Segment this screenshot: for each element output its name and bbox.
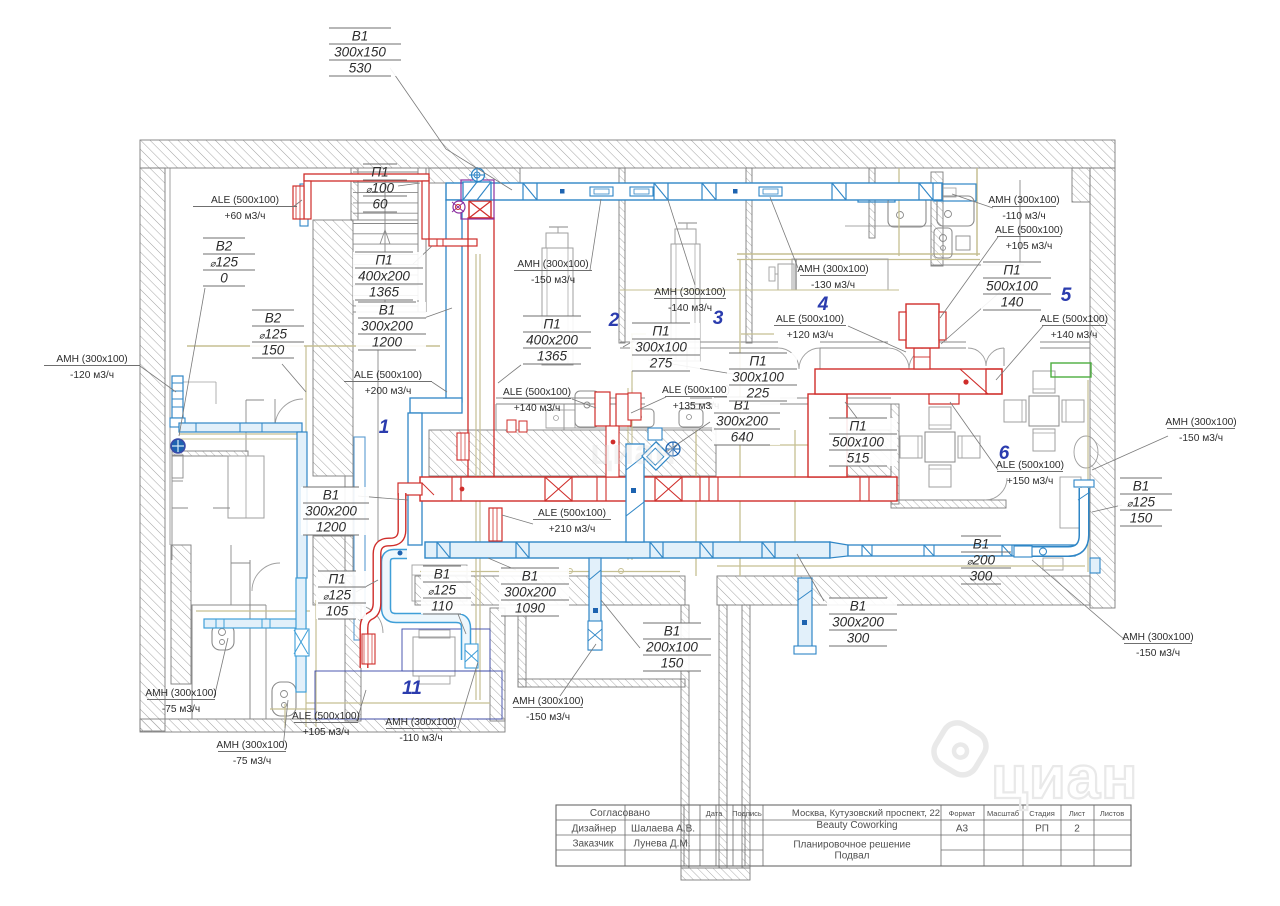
wall inner face left <box>169 168 171 545</box>
svg-text:+150 м3/ч: +150 м3/ч <box>1007 476 1054 487</box>
duct left wall vertical <box>354 437 365 640</box>
cabinet right wall <box>1060 477 1081 528</box>
label B1 300x200 1090 <box>499 568 569 616</box>
wall outer left band <box>140 168 165 731</box>
wall partition room 4 right <box>869 168 875 238</box>
svg-text:В1: В1 <box>352 29 369 44</box>
leader ALE+210 <box>502 515 533 524</box>
fan unit room4 <box>792 259 888 290</box>
svg-text:АМН (300х100): АМН (300х100) <box>385 717 456 728</box>
diffuser diamond <box>642 442 670 470</box>
wall mid hatched band left <box>429 430 716 476</box>
tan pipe corridor horizontal <box>743 444 835 446</box>
svg-text:150: 150 <box>1130 511 1153 526</box>
svg-text:-140 м3/ч: -140 м3/ч <box>668 303 712 314</box>
label P1 500x100 515 <box>827 418 897 466</box>
svg-text:275: 275 <box>649 356 673 371</box>
wall hall left line <box>495 404 497 430</box>
svg-text:3: 3 <box>713 308 724 329</box>
svg-text:циан: циан <box>590 431 676 472</box>
svg-text:-110 м3/ч: -110 м3/ч <box>399 733 442 744</box>
grille on top duct <box>590 187 613 196</box>
duct B2 left horizontal <box>179 423 302 432</box>
navy equipment outline room11 upper <box>402 629 490 671</box>
duct P1 connector horizontal <box>429 239 477 246</box>
svg-text:300х150: 300х150 <box>334 45 386 60</box>
svg-text:6: 6 <box>999 443 1010 464</box>
svg-text:Планировочное решение: Планировочное решение <box>793 840 911 851</box>
wall room6 bottom <box>891 500 1006 508</box>
svg-text:515: 515 <box>847 451 870 466</box>
svg-text:ALE (500х100): ALE (500х100) <box>1040 314 1108 325</box>
svg-text:1200: 1200 <box>316 520 347 535</box>
label B1 300x200 1200 <box>356 302 426 350</box>
svg-text:В2: В2 <box>216 239 233 254</box>
wall room1 boundary <box>377 345 379 560</box>
label B1 125 150 right <box>1118 478 1172 526</box>
table group 1 room6 <box>925 432 955 462</box>
duct B1 main top horizontal <box>446 183 942 200</box>
svg-text:П1: П1 <box>849 419 866 434</box>
svg-text:640: 640 <box>731 430 754 445</box>
staircase <box>353 171 418 173</box>
svg-text:-75 м3/ч: -75 м3/ч <box>162 704 200 715</box>
svg-text:П1: П1 <box>1003 263 1020 278</box>
beauty sink counter <box>546 427 716 429</box>
label B1 300x200 300 <box>827 598 897 646</box>
wall corridor line upper <box>620 341 645 343</box>
wall main bottom band right <box>717 576 1090 605</box>
purple damper outline <box>461 180 494 219</box>
svg-text:300х200: 300х200 <box>361 319 413 334</box>
svg-text:1200: 1200 <box>372 335 403 350</box>
svg-text:300х200: 300х200 <box>832 615 884 630</box>
svg-text:АМН (300х100): АМН (300х100) <box>797 264 868 275</box>
label P1 300x100 225 <box>727 353 797 401</box>
label P1 500x100 140 <box>981 262 1051 310</box>
label B1 200 300 on duct <box>961 535 1001 537</box>
label P1 400x200 1365 <box>353 252 423 300</box>
svg-text:4: 4 <box>817 294 829 315</box>
label B1 300x150 530 top <box>327 28 401 76</box>
equipment room11 upper <box>412 565 467 601</box>
svg-text:П1: П1 <box>543 317 560 332</box>
door arcs corridor <box>645 348 666 369</box>
tan band under left duct <box>179 433 306 435</box>
duct B1 right outdoor drop <box>798 578 812 652</box>
wall partition rooms 3-4 <box>746 168 752 343</box>
sink basin 1 <box>888 196 926 227</box>
duct P1 top-left vertical <box>422 181 429 239</box>
svg-text:0: 0 <box>220 271 228 286</box>
svg-text:105: 105 <box>326 604 349 619</box>
svg-text:РП: РП <box>1035 824 1049 835</box>
svg-text:300х200: 300х200 <box>305 504 357 519</box>
wall stairwell corridor right <box>742 605 750 868</box>
blue circle-cross symbol <box>666 442 680 456</box>
svg-text:ALE (500х100): ALE (500х100) <box>211 195 279 206</box>
toilet 2 bottom-left <box>272 682 296 716</box>
svg-text:-120 м3/ч: -120 м3/ч <box>70 370 114 381</box>
svg-text:Формат: Формат <box>949 809 976 818</box>
svg-text:В1: В1 <box>1133 479 1150 494</box>
svg-text:-150 м3/ч: -150 м3/ч <box>531 275 575 286</box>
table group 2 room6 <box>1029 396 1059 426</box>
wall room6 left <box>891 404 899 504</box>
duct P1 main horizontal 500 <box>420 477 897 501</box>
wall partition rooms 2-3 <box>619 168 625 343</box>
duct AMN left riser <box>172 376 183 418</box>
red risers at beauty sinks <box>595 392 610 426</box>
duct B1 transition <box>830 542 848 558</box>
door arc left room <box>275 399 303 427</box>
cabinets left-middle <box>228 456 264 518</box>
svg-text:А3: А3 <box>956 824 969 835</box>
svg-text:225: 225 <box>746 386 770 401</box>
svg-text:ALE (500х100): ALE (500х100) <box>662 385 730 396</box>
svg-text:Шалаева А.В.: Шалаева А.В. <box>631 824 695 835</box>
fan unit P1 <box>906 304 939 348</box>
wall stair enclosure <box>417 168 419 312</box>
wall central pier lower <box>313 536 353 605</box>
svg-text:Согласовано: Согласовано <box>590 808 651 819</box>
duct B2 left down vertical <box>297 432 307 578</box>
svg-text:Заказчик: Заказчик <box>572 839 614 850</box>
tan pipe room5 <box>898 168 900 256</box>
svg-text:500х100: 500х100 <box>832 435 884 450</box>
svg-text:5: 5 <box>1061 285 1072 306</box>
svg-text:400х200: 400х200 <box>526 333 578 348</box>
wall corner top-right block <box>1072 168 1090 202</box>
svg-text:П1: П1 <box>371 165 388 180</box>
svg-text:Москва, Кутузовский проспект: Москва, Кутузовский проспект, 22 <box>792 808 940 819</box>
navy equipment outline room11 lower <box>315 671 502 719</box>
wall room5 divider <box>976 168 978 256</box>
svg-text:ALE (500х100): ALE (500х100) <box>354 370 422 381</box>
svg-text:400х200: 400х200 <box>358 269 410 284</box>
sink basin 2 <box>937 196 974 226</box>
svg-text:циан: циан <box>991 744 1138 811</box>
tan line above bottom band <box>420 571 680 573</box>
equipment room11 <box>413 637 455 676</box>
svg-text:АМН (300х100): АМН (300х100) <box>145 688 216 699</box>
tan pipe at blue branch <box>627 388 629 560</box>
svg-text:+140 м3/ч: +140 м3/ч <box>514 403 561 414</box>
duct P1 S-run down to room11 <box>364 493 402 668</box>
svg-text:ALE (500х100): ALE (500х100) <box>538 508 606 519</box>
svg-text:140: 140 <box>1001 295 1024 310</box>
small red risers hall top <box>507 420 516 432</box>
door arc hall bottom <box>355 605 383 633</box>
wall stairwell corridor left <box>681 605 689 868</box>
wall top-right sink counter line <box>845 225 932 227</box>
wall wc cubicle lines bottom-left <box>191 605 193 719</box>
label P1 125 105 <box>316 571 366 619</box>
grille on central duct left <box>457 433 469 460</box>
purple circle symbol <box>453 201 465 213</box>
tan pipe vertical center <box>475 254 477 700</box>
wall main bottom band center <box>415 576 685 605</box>
title block frame <box>556 805 1131 866</box>
duct B1 drop 200x100 <box>589 558 601 650</box>
svg-text:300х100: 300х100 <box>732 370 784 385</box>
duct wc horizontal bottom-left <box>204 619 303 628</box>
tan pipe right wall <box>1087 380 1089 572</box>
svg-text:-75 м3/ч: -75 м3/ч <box>233 756 271 767</box>
tan pipe corridor verticals <box>739 259 741 576</box>
svg-text:В1: В1 <box>323 488 340 503</box>
duct neck to fan <box>914 348 930 369</box>
wall left room stub <box>183 381 216 383</box>
wall outer top band <box>140 140 1115 168</box>
svg-text:1090: 1090 <box>515 601 546 616</box>
svg-text:ALE (500х100): ALE (500х100) <box>503 387 571 398</box>
wall bottom-left step column <box>345 605 361 721</box>
label B1 200x100 150 <box>641 623 711 671</box>
duct P1 central vertical 400x200 <box>468 218 494 477</box>
svg-text:ALE (500х100): ALE (500х100) <box>776 314 844 325</box>
wall stairwell corridor mid <box>719 605 727 868</box>
svg-text:300х200: 300х200 <box>504 585 556 600</box>
fan circle symbol top <box>472 169 485 182</box>
svg-text:Лунева Д.М.: Лунева Д.М. <box>634 839 691 850</box>
svg-text:60: 60 <box>372 197 388 212</box>
wall stairwell corridor cap <box>681 868 750 880</box>
wall stair room left <box>518 608 526 687</box>
grille P1 room11 <box>362 634 375 664</box>
svg-text:2: 2 <box>608 310 620 331</box>
outlet through wall right <box>1090 558 1100 573</box>
svg-text:1: 1 <box>379 417 390 438</box>
svg-text:2: 2 <box>1074 824 1080 835</box>
fire damper red X-box <box>469 201 491 218</box>
svg-text:ALE (500х100): ALE (500х100) <box>292 711 360 722</box>
svg-text:-150 м3/ч: -150 м3/ч <box>526 712 570 723</box>
label B1 125 110 <box>421 566 471 614</box>
column riser room2 <box>542 248 573 365</box>
toilet 1 bottom-left <box>212 624 234 650</box>
leader lines <box>390 68 512 190</box>
duct P1 top-left horizontal <box>304 174 429 181</box>
grille on top duct <box>630 187 653 196</box>
svg-text:В1: В1 <box>973 537 990 552</box>
svg-text:АМН (300х100): АМН (300х100) <box>56 354 127 365</box>
svg-text:В1: В1 <box>522 569 539 584</box>
svg-text:300х200: 300х200 <box>716 414 768 429</box>
svg-text:11: 11 <box>402 678 422 699</box>
label B2 125 150 <box>250 310 304 358</box>
small box below duct right <box>1043 558 1063 570</box>
wall outer right band <box>1090 168 1115 608</box>
svg-text:АМН (300х100): АМН (300х100) <box>1122 632 1193 643</box>
label P1 100 60 <box>363 163 397 165</box>
wall hall upper line <box>496 397 645 399</box>
svg-text:АМН (300х100): АМН (300х100) <box>216 740 287 751</box>
wall wc top-right lines <box>737 253 980 255</box>
svg-text:530: 530 <box>349 61 372 76</box>
toilet top-right <box>934 228 952 258</box>
door arc room6 <box>985 478 1007 500</box>
svg-text:АМН (300х100): АМН (300х100) <box>512 696 583 707</box>
svg-text:В2: В2 <box>265 311 282 326</box>
svg-text:АМН (300х100): АМН (300х100) <box>517 259 588 270</box>
svg-text:-110 м3/ч: -110 м3/ч <box>1002 211 1045 222</box>
wall partition room1 top <box>351 168 358 220</box>
label B2 125 0 <box>201 238 255 286</box>
svg-text:АМН (300х100): АМН (300х100) <box>1165 417 1236 428</box>
svg-text:150: 150 <box>262 343 285 358</box>
svg-text:+200 м3/ч: +200 м3/ч <box>365 386 412 397</box>
svg-text:П1: П1 <box>375 253 392 268</box>
svg-text:П1: П1 <box>652 324 669 339</box>
duct cyan S to room11 <box>386 554 466 660</box>
svg-text:300: 300 <box>847 631 870 646</box>
blue damper box <box>463 182 491 200</box>
wc small box right <box>956 236 970 250</box>
grille on top duct <box>759 187 782 196</box>
duct wc vertical bottom-left <box>296 578 306 692</box>
svg-text:-150 м3/ч: -150 м3/ч <box>1179 433 1223 444</box>
duct P1 right vertical riser <box>808 394 847 477</box>
duct B1 right elbow up riser <box>1032 488 1084 552</box>
grille box on thin duct <box>1014 546 1032 557</box>
svg-text:-130 м3/ч: -130 м3/ч <box>811 280 855 291</box>
grille ALE below main duct <box>489 508 502 541</box>
wall left inner band <box>171 545 191 684</box>
svg-text:-150 м3/ч: -150 м3/ч <box>1136 648 1180 659</box>
duct B1 vertical to main <box>408 413 422 545</box>
duct B2 short stub top <box>300 184 308 226</box>
svg-text:1365: 1365 <box>369 285 400 300</box>
wall bottom-left right column <box>490 608 505 721</box>
duct P1 grille left <box>304 181 311 219</box>
wall partition wc left <box>931 172 943 266</box>
duct B1 vertical from damper <box>446 200 462 402</box>
svg-text:+60 м3/ч: +60 м3/ч <box>225 211 266 222</box>
wall block above damper cluster <box>429 168 520 183</box>
duct B1 main lower horizontal 300x200 <box>425 542 830 558</box>
sinks top-right <box>858 184 895 202</box>
svg-text:Подвал: Подвал <box>835 851 870 862</box>
svg-text:В1: В1 <box>434 567 451 582</box>
wall central pier upper <box>313 220 353 476</box>
svg-text:АМН (300х100): АМН (300х100) <box>654 287 725 298</box>
svg-text:Дата: Дата <box>706 809 723 818</box>
svg-text:1365: 1365 <box>537 349 568 364</box>
svg-text:Дизайнер: Дизайнер <box>572 824 617 835</box>
wall thin band left room <box>172 451 248 456</box>
svg-text:+105 м3/ч: +105 м3/ч <box>303 727 350 738</box>
svg-text:150: 150 <box>661 656 684 671</box>
svg-text:АМН (300х100): АМН (300х100) <box>988 195 1059 206</box>
wall mid hatched band right <box>845 430 891 476</box>
wall main bottom band left <box>345 576 355 605</box>
label P1 400x200 1365 room2 <box>521 316 591 364</box>
watermark cian pin <box>921 709 1000 788</box>
svg-text:300: 300 <box>970 569 993 584</box>
tan pipe horizontal left <box>187 345 440 347</box>
svg-text:ALE (500х100): ALE (500х100) <box>995 225 1063 236</box>
svg-text:500х100: 500х100 <box>986 279 1038 294</box>
label P1 300x100 275 room3 <box>630 323 700 371</box>
green cabinet room6 <box>1051 363 1091 377</box>
svg-text:В1: В1 <box>850 599 867 614</box>
svg-text:110: 110 <box>431 599 453 614</box>
column riser room3 <box>671 244 700 361</box>
tan pipes bottom-left <box>196 610 310 612</box>
label B1 300x200 1200 left <box>301 487 369 535</box>
svg-text:+120 м3/ч: +120 м3/ч <box>787 330 834 341</box>
label B1 300x200 640 <box>712 397 780 445</box>
svg-text:П1: П1 <box>749 354 766 369</box>
duct B1 jog horizontal <box>410 398 462 413</box>
wall pier side lines <box>344 476 346 605</box>
fan symbol B2 solid <box>171 439 185 453</box>
svg-text:200х100: 200х100 <box>645 640 698 655</box>
wall bottom-left band <box>140 719 505 732</box>
grille below upper duct <box>929 394 959 404</box>
wall niche circle right <box>1074 436 1098 468</box>
svg-text:В1: В1 <box>379 303 396 318</box>
svg-text:Подпись: Подпись <box>732 809 762 818</box>
svg-text:+140 м3/ч: +140 м3/ч <box>1051 330 1098 341</box>
duct B1 thin horizontal 200 <box>848 545 1075 556</box>
svg-text:+105 м3/ч: +105 м3/ч <box>1006 241 1053 252</box>
duct P1 left thin extension <box>398 483 422 495</box>
wall stair room bottom <box>518 679 685 687</box>
svg-text:300х100: 300х100 <box>635 340 687 355</box>
svg-text:+210 м3/ч: +210 м3/ч <box>549 524 596 535</box>
duct P1 upper horizontal 500x100 <box>815 369 1002 394</box>
duct B1 mid branch vertical (over red) <box>626 444 644 542</box>
svg-text:Beauty Coworking: Beauty Coworking <box>816 820 897 831</box>
svg-text:П1: П1 <box>328 572 345 587</box>
svg-text:В1: В1 <box>664 624 681 639</box>
